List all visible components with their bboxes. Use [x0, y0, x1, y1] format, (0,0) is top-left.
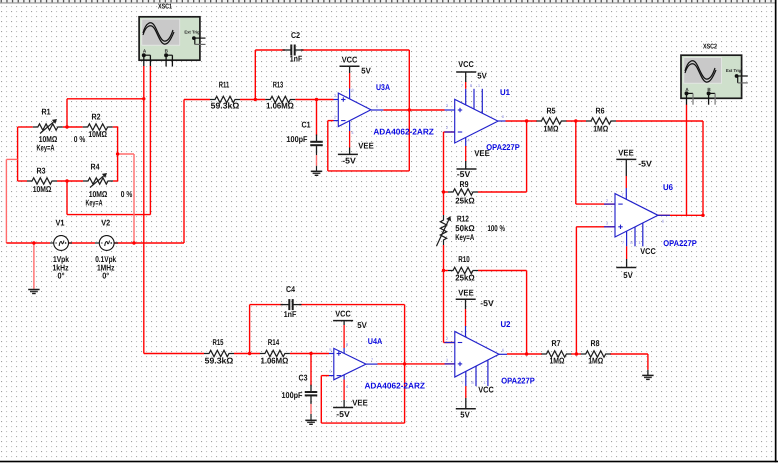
resistor R15 [204, 337, 234, 366]
op-amp U4A [329, 321, 378, 408]
svg-text:0 %: 0 % [74, 134, 86, 144]
svg-text:R14: R14 [268, 337, 280, 347]
svg-text:R13: R13 [273, 80, 284, 90]
svg-text:R4: R4 [91, 162, 100, 172]
label ADA4062-2ARZ (U4A) [364, 380, 425, 390]
op-amp U3A [334, 66, 384, 154]
label U6 [663, 182, 673, 192]
svg-text:-5V: -5V [638, 159, 652, 169]
VCC rail of U3A [340, 54, 372, 75]
potentiometer R12 (50k Key=A) [437, 213, 476, 246]
label ADA4062-2ARZ (U3A) [373, 127, 434, 137]
wire: R1 row [18, 126, 119, 128]
svg-text:5V: 5V [361, 66, 371, 76]
wire: C4 tap riser [250, 305, 283, 354]
svg-text:100 %: 100 % [487, 223, 505, 233]
resistor R11 [210, 80, 240, 111]
svg-text:Key=A: Key=A [37, 142, 55, 152]
svg-text:1nF: 1nF [290, 54, 303, 64]
label OPA227P (U1) [486, 142, 520, 152]
svg-text:-5V: -5V [480, 298, 494, 308]
svg-text:U3A: U3A [376, 82, 390, 92]
resistor R5 [536, 106, 566, 134]
wire: bridge right vertical [117, 127, 119, 181]
wire: R13 to U3A + input [295, 99, 333, 101]
op-amp U6 [604, 159, 670, 267]
svg-text:59.3kΩ: 59.3kΩ [205, 356, 234, 366]
resistor R1 (variable 10M) [33, 107, 63, 153]
svg-text:-5V: -5V [342, 156, 356, 166]
svg-text:Key=A: Key=A [86, 197, 103, 207]
wire: source row [6, 242, 184, 244]
svg-text:R15: R15 [213, 337, 224, 347]
wire: U6 output [658, 214, 670, 216]
wire: bridge right tap to source loop [118, 154, 134, 243]
VEE rail of U2 [456, 287, 494, 308]
label OPA227P (U6) [663, 238, 697, 248]
svg-text:V2: V2 [101, 218, 110, 228]
op-amp U2 [445, 299, 508, 408]
svg-text:1MΩ: 1MΩ [550, 355, 565, 365]
resistor R9 [448, 179, 478, 205]
capacitor C3 [282, 373, 318, 403]
label U4A [368, 336, 383, 346]
label U2 [501, 319, 511, 329]
resistor R10 [448, 254, 478, 282]
wire: scope XSC1 A- drop [149, 66, 151, 215]
svg-text:5V: 5V [623, 270, 633, 280]
label XSC1 [158, 4, 172, 11]
wire: scope XSC1 A+ drop / R15 feed [144, 66, 204, 354]
svg-text:VCC: VCC [478, 385, 494, 395]
svg-text:C2: C2 [291, 30, 300, 40]
svg-text:25kΩ: 25kΩ [455, 195, 475, 205]
capacitor C1 [287, 120, 323, 153]
svg-text:R3: R3 [37, 166, 46, 176]
svg-text:VCC: VCC [335, 309, 351, 319]
wire: C3 to ground (virtual) [310, 402, 312, 420]
svg-text:R11: R11 [219, 80, 230, 90]
wire: R9 left stub [444, 191, 449, 193]
wire: C2 tap riser [255, 50, 285, 100]
svg-text:U2: U2 [501, 319, 511, 329]
wire: U1 output row to R5 [506, 120, 538, 122]
capacitor C2 [283, 30, 304, 64]
svg-text:5V: 5V [477, 71, 487, 81]
wire: R7/R8 junction riser to U6 + input [576, 227, 615, 354]
svg-text:OPA227P: OPA227P [663, 238, 697, 248]
svg-text:OPA227P: OPA227P [501, 376, 535, 386]
svg-text:VEE: VEE [618, 148, 634, 158]
wire: V2 to R11 riser [184, 100, 210, 244]
svg-text:C1: C1 [302, 120, 311, 130]
VEE rail of U6 [616, 148, 652, 169]
svg-text:0°: 0° [102, 271, 109, 281]
svg-text:U4A: U4A [368, 336, 383, 346]
svg-text:1MΩ: 1MΩ [588, 355, 603, 365]
wire: U4A output to U2 + input [378, 363, 455, 365]
VCC rail of U6 [616, 246, 655, 280]
svg-text:10MΩ: 10MΩ [88, 129, 107, 139]
label U1 [500, 87, 510, 97]
top ruler strip [0, 0, 778, 4]
wire: R11-R13 segment [240, 99, 265, 101]
wire: R9 right to U1 output drop [478, 121, 527, 192]
wire: R5-R6 segment [566, 120, 586, 122]
wire: R5/R6 junction drop to U6 - input [576, 121, 615, 204]
svg-text:1.06MΩ: 1.06MΩ [261, 356, 289, 366]
capacitor C4 [281, 284, 302, 319]
label 100% for R12 [487, 223, 505, 233]
ground at sources [28, 290, 39, 294]
svg-text:VEE: VEE [458, 287, 474, 297]
svg-text:0°: 0° [58, 271, 65, 281]
svg-text:R12: R12 [457, 213, 469, 223]
wire: R15 row segment [234, 353, 260, 355]
wire: R3 row [18, 180, 119, 182]
label XSC2 [703, 44, 717, 51]
svg-text:XSC2: XSC2 [703, 44, 717, 51]
wire: C3 tap drop [310, 354, 312, 386]
wire: XSC2 A+ drop [686, 105, 688, 216]
wire: R7-R8 segment [571, 353, 581, 355]
wire: R10 right to U2 output drop [478, 271, 527, 355]
wire: bridge top tap to scope A row [67, 99, 144, 127]
svg-text:100pF: 100pF [282, 390, 303, 400]
label U3A [376, 82, 390, 92]
svg-text:XSC1: XSC1 [158, 4, 172, 11]
wire: R6 feedback to U6 output [616, 121, 703, 215]
svg-text:-5V: -5V [336, 409, 350, 419]
wire: U2 output row to R7 [507, 353, 542, 355]
svg-text:25kΩ: 25kΩ [455, 272, 475, 282]
oscilloscope XSC2 [681, 55, 748, 104]
svg-text:VCC: VCC [342, 54, 358, 64]
wire: R12 to chain [443, 192, 445, 271]
resistor R4 (variable 10M) [83, 162, 113, 208]
svg-text:5V: 5V [357, 320, 367, 330]
svg-text:C3: C3 [299, 373, 308, 383]
svg-text:-5V: -5V [457, 169, 471, 179]
svg-text:0 %: 0 % [121, 189, 133, 199]
wire: R14 to U4A + input [290, 353, 329, 355]
VEE rail of U1 [457, 148, 491, 179]
svg-text:U6: U6 [663, 182, 673, 192]
VEE rail of U3A [338, 141, 374, 166]
wire: bridge left vertical [17, 127, 19, 181]
svg-text:1nF: 1nF [284, 309, 297, 319]
wire: C2 to U3A feedback loop [301, 50, 409, 171]
AC source V1 [50, 218, 72, 281]
AC source V2 [95, 218, 118, 281]
resistor R2 [83, 112, 113, 139]
svg-text:VCC: VCC [458, 59, 474, 69]
label 0% for R1 [74, 134, 86, 144]
wire: ground drop at sources [33, 243, 35, 289]
VCC rail of U1 [456, 59, 487, 81]
svg-text:Ext Trig: Ext Trig [726, 68, 742, 73]
svg-text:R8: R8 [591, 338, 600, 348]
svg-text:Ext Trig: Ext Trig [184, 30, 200, 35]
wire: C4 to U4A feedback loop [299, 305, 405, 424]
label OPA227P (U2) [501, 376, 535, 386]
svg-text:Key=A: Key=A [455, 232, 474, 242]
svg-text:OPA227P: OPA227P [486, 142, 520, 152]
svg-text:100pF: 100pF [287, 134, 308, 144]
svg-text:R2: R2 [92, 112, 101, 122]
svg-text:10MΩ: 10MΩ [33, 184, 52, 194]
svg-text:R1: R1 [42, 107, 51, 117]
svg-text:C4: C4 [286, 284, 295, 294]
label 0% for R4 [121, 189, 133, 199]
op-amp U1 [445, 72, 506, 169]
oscilloscope XSC1 [139, 17, 205, 67]
ground after R8 [642, 375, 653, 379]
svg-text:1MΩ: 1MΩ [593, 123, 608, 133]
wire: U1 inverting input drop to R9 [444, 132, 455, 192]
VCC rail of U2 [456, 385, 494, 420]
resistor R7 [541, 338, 571, 365]
VEE rail of U4A [333, 397, 368, 419]
svg-text:ADA4062-2ARZ: ADA4062-2ARZ [373, 127, 434, 137]
wire: C1 to ground (virtual) [316, 152, 318, 172]
svg-text:R5: R5 [547, 106, 556, 116]
svg-text:R9: R9 [460, 179, 469, 189]
VCC rail of U4A [333, 309, 367, 330]
svg-text:V1: V1 [56, 218, 65, 228]
wire: bridge bottom tap [67, 181, 150, 215]
wire: C1 tap drop [316, 100, 318, 136]
svg-text:VCC: VCC [640, 246, 656, 256]
svg-text:VEE: VEE [352, 397, 368, 407]
resistor R13 [265, 80, 295, 111]
svg-text:R7: R7 [552, 338, 561, 348]
svg-text:VEE: VEE [358, 141, 374, 151]
ground below C3 [305, 420, 316, 424]
svg-text:1MΩ: 1MΩ [544, 123, 559, 133]
svg-text:5V: 5V [460, 409, 470, 419]
wire: bridge left tap to source loop [6, 159, 17, 243]
svg-text:U1: U1 [500, 87, 510, 97]
ground below C1 [311, 171, 322, 175]
svg-text:1.06MΩ: 1.06MΩ [266, 100, 294, 110]
svg-text:59.3kΩ: 59.3kΩ [211, 100, 240, 110]
resistor R8 [581, 338, 611, 365]
wire: R8 to ground [610, 354, 648, 375]
svg-text:ADA4062-2ARZ: ADA4062-2ARZ [364, 380, 425, 390]
wire: U3A output to U1 [383, 109, 444, 111]
resistor R14 [260, 337, 290, 366]
svg-text:R6: R6 [596, 106, 605, 116]
svg-text:R10: R10 [458, 254, 470, 264]
wire: R10 left stub / chain to U2 inverting input [444, 271, 455, 343]
resistor R6 [586, 106, 616, 134]
resistor R3 [27, 166, 57, 195]
